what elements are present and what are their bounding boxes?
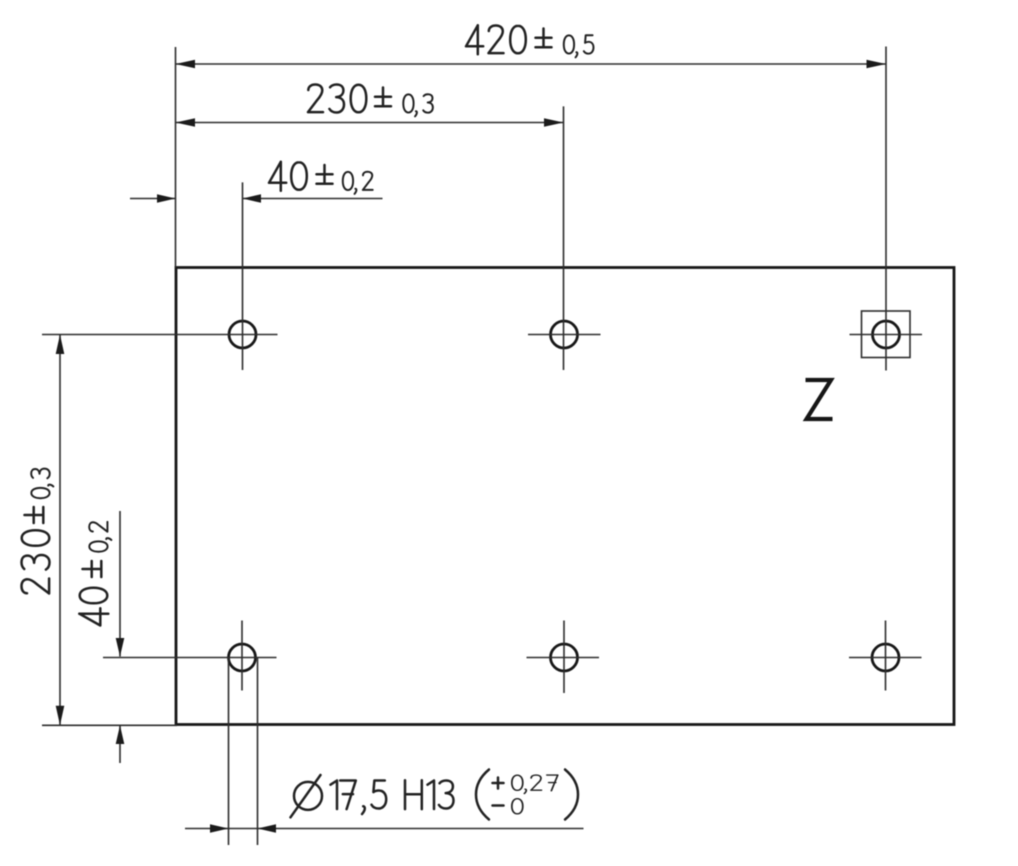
dimension text dia 17,5 H13 with tolerance	[291, 775, 454, 817]
arrow 40 right (outside, pointing left)	[243, 194, 262, 203]
arrow 230 left	[176, 118, 196, 127]
arrow 230v top	[56, 335, 65, 355]
arrow 40v lower (outside, pointing up)	[116, 725, 125, 744]
arrow 230 right	[544, 118, 564, 127]
centerline H3 horizontal	[850, 334, 923, 336]
extension line bottom-left (230/40 vertical dims)	[42, 724, 177, 726]
dimension line 40 left stub	[130, 198, 176, 200]
arrow 40 left (outside, pointing right)	[157, 194, 176, 203]
arrow 420 left	[176, 60, 196, 69]
arrow 230v bottom	[56, 706, 65, 726]
dimension line dia 17,5	[185, 828, 584, 830]
dimension text 40 +/- 0,2	[269, 162, 373, 194]
hole H5 bottom-middle	[551, 644, 578, 671]
hole H4 bottom-left	[229, 644, 256, 671]
hole H6 bottom-right	[872, 644, 899, 671]
extension line hole tangent right (dia dim)	[257, 657, 259, 845]
hole H1 top-left	[229, 321, 256, 348]
centerline H2 horizontal	[528, 334, 601, 336]
dimension text 230 +/- 0,3 vertical	[22, 469, 54, 594]
centerline H6 vertical	[885, 621, 887, 691]
detail square marker Z around hole H3	[862, 311, 911, 358]
tolerance closing paren	[565, 770, 578, 820]
hole H2 top-middle	[551, 321, 578, 348]
dimension line 230	[176, 122, 564, 124]
centerline H3 vertical / extension for 420 horizontal dim	[885, 47, 887, 371]
dimension line 40 leader	[243, 198, 383, 200]
dimension text 230 +/- 0,3	[308, 85, 433, 117]
dimension line 40 vertical upper	[119, 511, 121, 657]
plate outline	[176, 268, 954, 725]
centerline H5 horizontal	[527, 657, 600, 659]
arrow 420 right	[867, 60, 887, 69]
centerline H4 vertical	[241, 621, 243, 691]
tolerance plus sign	[493, 778, 504, 789]
centerline H1 horizontal / extension for 230 vertical dim	[42, 334, 278, 336]
view label Z	[806, 380, 833, 419]
tolerance superscript 0,27	[512, 775, 558, 793]
dimension line 230 vertical	[59, 335, 61, 726]
arrow dia left (outside, pointing right)	[210, 824, 229, 833]
dimension line 40 vertical lower	[119, 725, 121, 763]
tolerance minus sign	[493, 804, 504, 807]
arrow dia right (outside, pointing left)	[258, 824, 277, 833]
dimension text 40 +/- 0,2 vertical	[79, 522, 111, 626]
extension line hole tangent left (dia dim)	[228, 657, 230, 845]
centerline H4 horizontal / extension for 40 vertical dim	[103, 657, 277, 659]
extension line left edge (420/230/40 dims)	[175, 47, 177, 268]
arrow 40v upper (outside, pointing down)	[116, 638, 125, 657]
centerline H1 vertical / extension for 40 horizontal dim	[242, 182, 244, 370]
tolerance subscript 0	[512, 799, 523, 814]
centerline H2 vertical / extension for 230 horizontal dim	[563, 106, 565, 370]
hole H3 top-right	[873, 321, 900, 348]
centerline H5 vertical	[563, 621, 565, 694]
dimension text 420 +/- 0,5	[466, 25, 593, 57]
dimension line 420	[176, 63, 887, 65]
centerline H6 horizontal	[849, 657, 922, 659]
tolerance opening paren	[476, 770, 489, 820]
